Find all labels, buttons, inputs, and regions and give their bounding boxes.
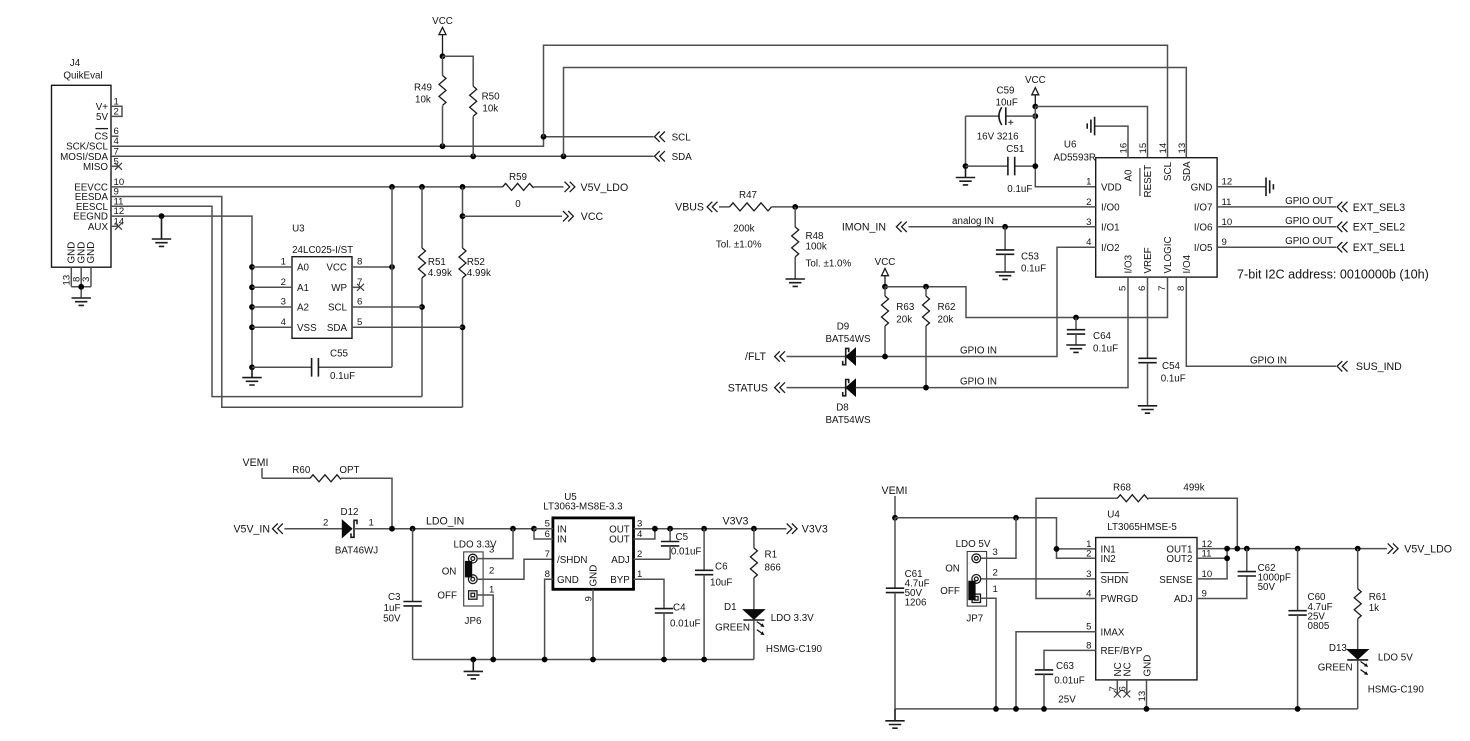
wire GPIO IN I/O4 to SUS_IND xyxy=(1186,277,1336,366)
jumper JP6 LDO 3.3V xyxy=(437,540,497,628)
wire JP7 pin3 xyxy=(981,518,1016,559)
jumper JP7 LDO 5V xyxy=(940,539,998,625)
svg-text:R49: R49 xyxy=(414,83,432,94)
svg-text:U3: U3 xyxy=(292,224,305,235)
svg-text:OUT: OUT xyxy=(609,535,630,546)
svg-text:VDD: VDD xyxy=(1101,182,1122,193)
resistor R48 100k xyxy=(792,207,852,279)
junction rail IMAX xyxy=(1013,706,1019,712)
J4 pin stub AUX xyxy=(111,225,118,227)
junction rail JP6 pin1 xyxy=(490,657,496,663)
ground C54 xyxy=(1138,406,1157,413)
junction R48 top xyxy=(792,204,798,210)
junction U3 pin1 xyxy=(249,264,255,270)
IC U5 LT3063 body xyxy=(543,492,633,590)
junction VCC/R63 xyxy=(882,284,888,290)
svg-text:3: 3 xyxy=(281,297,286,308)
svg-text:U4: U4 xyxy=(1107,510,1120,521)
svg-text:1206: 1206 xyxy=(905,598,927,609)
capacitor C3 1uF 50V xyxy=(383,529,422,660)
no-connect X NC6 xyxy=(1123,691,1130,698)
svg-text:7: 7 xyxy=(545,549,550,560)
wire JP6 pin3 xyxy=(477,529,513,559)
wire JP7 pin1 xyxy=(981,598,997,709)
svg-text:A2: A2 xyxy=(297,303,309,314)
svg-text:1: 1 xyxy=(281,257,286,268)
svg-text:20k: 20k xyxy=(938,315,954,326)
capacitor C5 0.01uF xyxy=(661,529,702,560)
wire U5 BYP pin1 to C4 xyxy=(634,579,665,608)
junction R49 bottom on SCL xyxy=(440,143,446,149)
resistor R47 200k xyxy=(716,190,1096,251)
svg-text:GND: GND xyxy=(1191,182,1213,193)
junction U5 IN tie xyxy=(531,526,537,532)
svg-text:SDA: SDA xyxy=(672,152,693,163)
wire U5 GND pin8 xyxy=(545,579,553,659)
svg-text:3: 3 xyxy=(1086,569,1091,580)
svg-text:GND: GND xyxy=(1142,655,1153,677)
svg-text:/FLT: /FLT xyxy=(745,351,767,363)
junction C51 right xyxy=(1032,163,1038,169)
resistor R51 4.99k xyxy=(419,187,452,397)
svg-text:SCL: SCL xyxy=(672,132,692,143)
svg-text:10uF: 10uF xyxy=(710,578,732,589)
wire EEGND xyxy=(111,216,252,367)
IC U6 AD5593R body xyxy=(1054,140,1218,278)
U5 pin names xyxy=(557,524,630,586)
svg-text:I/O0: I/O0 xyxy=(1101,203,1120,214)
svg-text:SCL: SCL xyxy=(328,303,348,314)
resistor R49 10k xyxy=(414,56,446,146)
svg-text:6: 6 xyxy=(1137,286,1148,291)
junction C3 tap xyxy=(410,526,416,532)
junction VCC/C59 xyxy=(1032,113,1038,119)
junction U3 VCC xyxy=(389,264,395,270)
wire SCL riser to U6 pin 14 xyxy=(544,45,1168,158)
U3 pin names xyxy=(297,263,348,334)
svg-text:VSS: VSS xyxy=(297,323,317,334)
svg-text:7-bit I2C address: 0010000b (1: 7-bit I2C address: 0010000b (10h) xyxy=(1237,268,1429,282)
junction JP7 pin3 tap xyxy=(1013,515,1019,521)
svg-text:I/O2: I/O2 xyxy=(1101,243,1120,254)
ground U4 rail xyxy=(885,709,904,728)
wire LDO_IN xyxy=(354,528,553,530)
port V5V_LDO (top) xyxy=(565,182,629,194)
wire STATUS to diode D8 xyxy=(787,387,846,389)
svg-text:HSMG-C190: HSMG-C190 xyxy=(766,644,823,655)
svg-text:R61: R61 xyxy=(1369,592,1387,603)
junction R60 drop xyxy=(389,526,395,532)
U5 pin numbers xyxy=(545,519,643,602)
junction SCL riser xyxy=(541,134,547,140)
wire GPIO OUT I/O5 xyxy=(1217,246,1336,248)
capacitor C62 1000pF 50V xyxy=(1238,549,1291,594)
svg-text:3: 3 xyxy=(993,547,998,558)
port EXT_SEL1 xyxy=(1337,242,1405,254)
wire /FLT to diode D9 xyxy=(787,356,846,358)
junction rail C4 xyxy=(661,657,667,663)
IC U4 LT3065 body xyxy=(1096,510,1197,680)
svg-text:50V: 50V xyxy=(1258,582,1276,593)
junction R62 top xyxy=(923,284,929,290)
svg-text:WP: WP xyxy=(331,283,347,294)
svg-text:V5V_IN: V5V_IN xyxy=(233,523,270,535)
svg-text:LDO 5V: LDO 5V xyxy=(956,539,991,550)
svg-text:R62: R62 xyxy=(938,302,956,313)
svg-text:NC: NC xyxy=(1123,662,1134,676)
svg-text:24LC025-I/ST: 24LC025-I/ST xyxy=(292,245,353,256)
svg-text:JP6: JP6 xyxy=(465,616,482,627)
svg-text:R50: R50 xyxy=(482,92,501,103)
svg-text:GPIO IN: GPIO IN xyxy=(960,346,997,357)
svg-text:C5: C5 xyxy=(676,532,689,543)
U4 NC stubs xyxy=(1117,680,1127,694)
svg-text:IN: IN xyxy=(557,535,567,546)
svg-text:GPIO IN: GPIO IN xyxy=(1250,355,1287,366)
U6 right pin numbers xyxy=(1222,176,1233,248)
svg-text:D9: D9 xyxy=(837,322,850,333)
junction VCC out xyxy=(460,213,466,219)
no-connect X WP xyxy=(357,284,364,291)
svg-text:D13: D13 xyxy=(1329,643,1348,654)
wire EESCL xyxy=(111,206,422,396)
capacitor C63 0.01uF 25V xyxy=(1035,661,1085,709)
svg-text:SDA: SDA xyxy=(1182,161,1193,182)
svg-text:C53: C53 xyxy=(1021,252,1040,263)
svg-text:SDA: SDA xyxy=(327,323,348,334)
wire VCC node to R50 top xyxy=(443,56,474,86)
svg-text:2: 2 xyxy=(993,568,998,579)
ground rail U4 xyxy=(895,708,1358,710)
resistor R60 OPT xyxy=(262,465,392,529)
J4 pin stub MISO xyxy=(111,165,118,167)
junction JP6 pin3 tap xyxy=(510,526,516,532)
no-connect X AUX xyxy=(115,223,122,230)
svg-text:GPIO OUT: GPIO OUT xyxy=(1285,216,1333,227)
junction SDA riser xyxy=(561,153,567,159)
svg-text:5: 5 xyxy=(357,317,362,328)
junction R63 bottom xyxy=(882,354,888,360)
junction rail C60 xyxy=(1295,706,1301,712)
junction R62 bottom xyxy=(923,385,929,391)
svg-text:RESET: RESET xyxy=(1143,165,1154,198)
wire GPIO OUT I/O7 xyxy=(1217,206,1336,208)
svg-text:9: 9 xyxy=(1222,237,1227,248)
wire SDA riser to U6 pin 13 xyxy=(564,68,1187,158)
svg-text:10k: 10k xyxy=(415,95,431,106)
svg-text:1: 1 xyxy=(489,585,494,596)
ground C55 xyxy=(242,367,261,385)
IC U3 24LC025 body xyxy=(292,224,353,339)
svg-text:/SHDN: /SHDN xyxy=(557,555,587,566)
power VCC pullups xyxy=(432,16,453,56)
port /FLT xyxy=(745,351,785,363)
port STATUS xyxy=(728,382,785,394)
svg-text:V5V_LDO: V5V_LDO xyxy=(1404,544,1452,556)
wire GPIO IN (/FLT) to I/O2 xyxy=(856,247,1096,356)
U6 pin wires left (VDD/IO0/IO1/IO2 rows handled by nets) xyxy=(1086,176,1092,248)
ground A0 (rotated left) xyxy=(1087,117,1094,136)
junction rail JP7 pin1 xyxy=(993,706,999,712)
wire U3 VCC pin8 xyxy=(352,266,392,268)
svg-text:VCC: VCC xyxy=(581,211,604,223)
svg-text:100k: 100k xyxy=(806,241,827,252)
capacitor C53 0.1uF xyxy=(996,227,1046,275)
svg-text:BAT54WS: BAT54WS xyxy=(825,334,870,345)
svg-text:1: 1 xyxy=(1086,176,1091,187)
wire A0 pin16 to ground xyxy=(1095,126,1128,158)
svg-text:VBUS: VBUS xyxy=(675,202,704,214)
svg-text:I/O1: I/O1 xyxy=(1101,223,1120,234)
wire IMAX to ground xyxy=(1016,632,1096,709)
svg-text:866: 866 xyxy=(765,563,782,574)
junction C53 xyxy=(1002,224,1008,230)
svg-text:C64: C64 xyxy=(1093,331,1112,342)
svg-text:5: 5 xyxy=(1117,286,1128,291)
svg-text:VCC: VCC xyxy=(326,263,347,274)
net flag VEMI (left) xyxy=(243,457,269,478)
svg-text:4: 4 xyxy=(281,317,287,328)
svg-text:IMAX: IMAX xyxy=(1101,627,1125,638)
junction VCC/RESET xyxy=(1032,104,1038,110)
svg-text:EXT_SEL3: EXT_SEL3 xyxy=(1353,202,1406,214)
resistor R63 20k xyxy=(882,287,915,357)
capacitor C59 10uF polarized xyxy=(966,86,1036,143)
U6 bottom pin numbers rotated xyxy=(1117,286,1187,291)
svg-text:VREF: VREF xyxy=(1143,247,1154,273)
svg-text:VCC: VCC xyxy=(875,257,896,268)
junction J4 GND xyxy=(78,284,84,290)
svg-text:1k: 1k xyxy=(1369,603,1379,614)
J4 pin stubs V+/5V tie xyxy=(111,106,122,116)
junction C5 top xyxy=(667,526,673,532)
ground C59/C51 xyxy=(956,166,975,185)
wire VCC branch down xyxy=(462,187,464,248)
svg-text:I/O6: I/O6 xyxy=(1194,223,1213,234)
junction R51/SCL pin6 xyxy=(419,304,425,310)
svg-text:2: 2 xyxy=(323,518,328,529)
J4 pin numbers xyxy=(114,96,125,227)
svg-text:LDO_IN: LDO_IN xyxy=(426,516,464,528)
svg-text:16V 3216: 16V 3216 xyxy=(977,131,1019,142)
svg-text:R60: R60 xyxy=(292,465,311,476)
capacitor C54 0.1uF on VREF xyxy=(1138,277,1185,406)
svg-text:VCC: VCC xyxy=(1025,75,1046,86)
junction rail U5 pin8 xyxy=(542,657,548,663)
svg-text:AD5593R: AD5593R xyxy=(1054,153,1096,164)
svg-text:EXT_SEL2: EXT_SEL2 xyxy=(1353,222,1406,234)
port V5V_LDO (output) xyxy=(1388,543,1452,555)
resistor R50 10k xyxy=(470,86,500,156)
junction C55 left xyxy=(249,364,255,370)
svg-text:3: 3 xyxy=(489,545,494,556)
svg-text:BAT46WJ: BAT46WJ xyxy=(335,546,378,557)
junction R68 right xyxy=(1234,546,1240,552)
svg-text:SENSE: SENSE xyxy=(1159,575,1193,586)
svg-text:6: 6 xyxy=(357,297,362,308)
U4 pin numbers xyxy=(1086,539,1212,702)
svg-text:REF/BYP: REF/BYP xyxy=(1101,646,1143,657)
junction rail C63 xyxy=(1041,706,1047,712)
svg-text:SHDN: SHDN xyxy=(1101,575,1129,586)
svg-text:10uF: 10uF xyxy=(996,98,1018,109)
wire U5 GND pin9 xyxy=(592,589,594,659)
svg-text:D8: D8 xyxy=(836,403,849,414)
ground U5 rail xyxy=(464,660,483,679)
svg-text:0: 0 xyxy=(515,199,521,210)
svg-text:0.01uF: 0.01uF xyxy=(1054,675,1085,686)
wire VCC rail down to VDD xyxy=(1035,107,1095,187)
capacitor C55 0.1uF xyxy=(252,349,392,382)
svg-text:GND: GND xyxy=(589,565,600,587)
wire OUT1 to V5V_LDO xyxy=(1197,548,1387,550)
svg-text:D1: D1 xyxy=(724,602,737,613)
no-connect X NC7 xyxy=(1114,691,1121,698)
svg-text:J4: J4 xyxy=(70,58,81,69)
svg-text:PWRGD: PWRGD xyxy=(1101,594,1139,605)
U6 top pin names rotated xyxy=(1124,161,1193,198)
LED D1 GREEN HSMG-C190 xyxy=(715,602,822,660)
wire U4 IN1 xyxy=(1057,548,1096,550)
wire U3 SDA pin5 xyxy=(352,326,463,328)
svg-text:R52: R52 xyxy=(467,257,485,268)
wire OUT2 tie xyxy=(1197,549,1227,559)
svg-text:8: 8 xyxy=(357,257,362,268)
LED D13 GREEN HSMG-C190 xyxy=(1318,643,1425,709)
wire RESET pullup xyxy=(1035,107,1147,158)
svg-text:ADJ: ADJ xyxy=(1174,594,1193,605)
wire JP6 pin1 to ground rail xyxy=(477,595,493,660)
svg-text:C51: C51 xyxy=(1006,144,1024,155)
junction R50 bottom on SDA xyxy=(470,153,476,159)
svg-text:analog IN: analog IN xyxy=(952,216,994,227)
wire EESDA xyxy=(111,197,463,408)
port EXT_SEL2 xyxy=(1337,222,1405,234)
power VCC (GPIO pullups) xyxy=(875,257,896,287)
capacitor C60 4.7uF 25V 0805 xyxy=(1288,549,1332,709)
wire C59/C51 left leg xyxy=(965,116,967,166)
svg-text:LDO 5V: LDO 5V xyxy=(1378,652,1413,663)
svg-text:50V: 50V xyxy=(383,613,401,624)
wire GPIO IN (STATUS) to I/O3 xyxy=(856,277,1129,388)
port V5V_IN xyxy=(233,523,282,535)
wire U5 ADJ pin2 xyxy=(634,558,671,560)
svg-text:GREEN: GREEN xyxy=(1318,663,1353,674)
ground EEGND xyxy=(152,216,171,246)
junction U3 pin4 xyxy=(249,324,255,330)
ground J4 xyxy=(72,298,91,305)
svg-text:13: 13 xyxy=(1177,143,1188,154)
wire U4 GND pin13 xyxy=(1146,680,1148,709)
port SUS_IND xyxy=(1337,361,1402,373)
junction rail C6 xyxy=(701,657,707,663)
junction C62 top xyxy=(1244,546,1250,552)
junction R52/SDA pin5 xyxy=(460,324,466,330)
port EXT_SEL3 xyxy=(1337,202,1405,214)
svg-text:ADJ: ADJ xyxy=(611,555,630,566)
svg-text:C54: C54 xyxy=(1162,361,1181,372)
svg-text:JP7: JP7 xyxy=(966,614,983,625)
capacitor C64 0.1uF xyxy=(1067,318,1118,355)
svg-text:5: 5 xyxy=(545,519,550,530)
svg-text:C6: C6 xyxy=(715,562,728,573)
port SCL xyxy=(655,132,692,144)
junction OUT2/OUT1 xyxy=(1224,546,1230,552)
svg-text:R63: R63 xyxy=(896,302,915,313)
svg-text:20k: 20k xyxy=(896,315,912,326)
ground GND pin12 (rotated right) xyxy=(1266,178,1273,197)
svg-text:VLOGIC: VLOGIC xyxy=(1163,236,1174,273)
junction C51 left xyxy=(963,163,969,169)
svg-text:OFF: OFF xyxy=(940,586,960,597)
no-connect X MISO xyxy=(115,163,122,170)
wire VCC to VLOGIC xyxy=(885,277,1168,317)
junction rail ground tap xyxy=(470,657,476,663)
junction EEGND ground tap xyxy=(159,213,165,219)
svg-text:8: 8 xyxy=(1176,286,1187,291)
svg-text:C4: C4 xyxy=(673,602,686,613)
wire VEMI to U4 IN xyxy=(895,518,1096,559)
svg-text:BYP: BYP xyxy=(610,575,630,586)
port SDA xyxy=(655,151,693,163)
wire SCK/SCL from J4 to SCL port xyxy=(111,137,654,147)
capacitor C6 10uF xyxy=(695,529,732,660)
diode D9 BAT54WS xyxy=(825,322,870,365)
svg-text:2: 2 xyxy=(1086,549,1091,560)
svg-text:GND: GND xyxy=(557,575,579,586)
diode D8 BAT54WS xyxy=(825,379,870,426)
svg-text:2: 2 xyxy=(489,566,494,577)
svg-text:LDO 3.3V: LDO 3.3V xyxy=(771,613,814,624)
J4 pin stub CS xyxy=(111,135,119,137)
svg-text:0.1uF: 0.1uF xyxy=(1007,184,1032,195)
svg-text:MISO: MISO xyxy=(83,162,108,173)
U6 pin names right xyxy=(1191,182,1213,254)
svg-text:QuikEval: QuikEval xyxy=(63,71,102,82)
svg-text:GPIO OUT: GPIO OUT xyxy=(1285,236,1333,247)
svg-text:7: 7 xyxy=(1157,286,1168,291)
junction IN1 xyxy=(1054,546,1060,552)
svg-text:0805: 0805 xyxy=(1308,621,1330,632)
svg-text:A1: A1 xyxy=(297,283,309,294)
svg-text:0.1uF: 0.1uF xyxy=(330,371,355,382)
connector J4 body xyxy=(52,58,112,267)
U6 bottom pin names rotated xyxy=(1124,236,1194,273)
power VCC (U6 supply) xyxy=(1025,75,1046,107)
svg-text:V3V3: V3V3 xyxy=(802,524,828,536)
resistor R59 0 xyxy=(503,172,564,210)
svg-text:499k: 499k xyxy=(1183,483,1204,494)
svg-text:C3: C3 xyxy=(388,592,401,603)
junction C64 xyxy=(1073,315,1079,321)
junction C60 top xyxy=(1295,546,1301,552)
svg-text:12: 12 xyxy=(1222,176,1233,187)
net flag VEMI (right) xyxy=(882,485,908,518)
U5 IN pin wires xyxy=(534,529,553,539)
svg-text:VCC: VCC xyxy=(432,16,453,27)
U3 pin numbers xyxy=(281,257,363,328)
wire ADJ to C62 xyxy=(1197,576,1247,599)
svg-text:GREEN: GREEN xyxy=(715,622,750,633)
svg-text:I/O5: I/O5 xyxy=(1194,243,1213,254)
svg-text:A0: A0 xyxy=(1124,169,1135,182)
svg-text:1: 1 xyxy=(993,584,998,595)
svg-text:25V: 25V xyxy=(1058,695,1076,706)
ground rail U5 xyxy=(413,659,754,661)
svg-text:V5V_LDO: V5V_LDO xyxy=(581,182,629,194)
svg-text:15: 15 xyxy=(1138,143,1149,154)
svg-text:R68: R68 xyxy=(1113,483,1132,494)
